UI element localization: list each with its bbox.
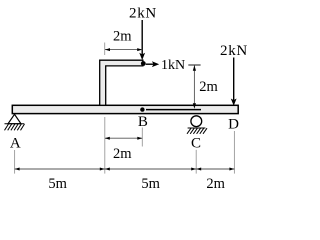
force 2kN at top of post arm <box>129 6 157 61</box>
dimension 2m (top, arm length) <box>105 29 143 56</box>
svg-text:5m: 5m <box>48 176 67 192</box>
svg-text:C: C <box>191 136 201 152</box>
joint dot at B <box>140 107 144 111</box>
roller support at C <box>187 116 207 134</box>
joint dot at arm end <box>141 61 146 66</box>
svg-text:2m: 2m <box>113 146 132 162</box>
bottom dimension chain 5m / 5m / 2m <box>15 131 235 192</box>
svg-text:1kN: 1kN <box>161 58 185 73</box>
svg-text:2m: 2m <box>113 29 132 45</box>
force 1kN at arm end <box>146 58 185 73</box>
svg-text:D: D <box>228 117 239 133</box>
svg-text:2kN: 2kN <box>129 6 157 22</box>
frame member (vertical post + top arm, L-bar) <box>100 60 143 105</box>
dimension 2m (vertical, right of 1kN) <box>188 65 218 109</box>
dimension 2m (post to B) <box>105 117 143 174</box>
pin support at A <box>5 114 25 130</box>
beam AD <box>12 105 238 113</box>
svg-text:2kN: 2kN <box>220 43 248 59</box>
svg-text:5m: 5m <box>141 176 160 192</box>
svg-text:B: B <box>138 114 148 130</box>
svg-text:2m: 2m <box>206 176 225 192</box>
svg-text:2m: 2m <box>199 79 218 95</box>
svg-text:A: A <box>10 136 21 152</box>
member BC line inside beam <box>146 109 201 111</box>
force 2kN at D <box>220 43 248 106</box>
